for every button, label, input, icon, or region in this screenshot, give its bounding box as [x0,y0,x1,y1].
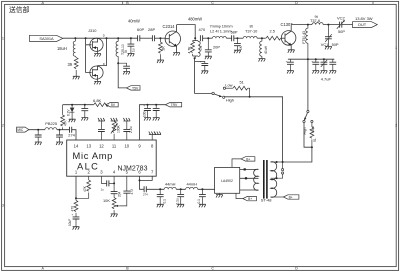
svg-text:4.7K: 4.7K [187,46,191,54]
wire secondary bottom to flag [271,196,284,198]
node junction dot S1 out [249,96,251,98]
svg-text:10K: 10K [103,198,110,203]
ground under Q3 emitter [173,53,180,56]
inductor T37-10 [243,36,257,38]
wire combo bottom down to S1 [195,56,212,93]
svg-text:2.5: 2.5 [270,29,275,34]
node junction dot base Q3 [159,37,161,39]
svg-text:51: 51 [313,138,317,142]
ground under bypass C [321,71,328,74]
node junction dot pin1 [75,197,77,199]
svg-text:10: 10 [124,144,129,149]
wire Q2 drain to main line [98,38,107,66]
resistor 2.5 series [266,36,281,40]
svg-text:FT50-43: FT50-43 [302,31,306,44]
ground under RFC bypass cap [123,72,130,75]
svg-text:NJM2783: NJM2783 [118,165,148,172]
resistor S2 low branch [310,123,317,148]
inductor RFC parallel with 4.7K [198,41,203,57]
svg-text:D: D [295,1,298,5]
svg-text:SA301A: SA301A [39,36,54,41]
svg-text:D: D [103,34,105,38]
capacitor pin10 2.2u [123,121,133,140]
wire LA4902 output pin lower [240,189,259,191]
capacitor 1u pin3 [101,176,115,191]
capacitor 60P series [138,35,140,41]
node MIC input flag [17,127,29,132]
wire S1 High output to transformer feed [225,97,283,162]
svg-text:40uH: 40uH [264,45,268,54]
wire mic bias rail [63,104,94,106]
wire main line segment 4 [203,37,213,39]
ground under 2K [157,60,164,63]
zone tick top right [123,1,373,4]
svg-text:2: 2 [395,124,397,128]
node junction dot mic 1 [37,129,39,131]
svg-text:58P: 58P [231,29,238,34]
node junction dot rail [323,58,325,60]
svg-text:送信部: 送信部 [9,5,30,14]
svg-text:6.8K: 6.8K [93,98,102,103]
ground under Q2 source [94,79,101,84]
capacitor filter shunt 0.1 first [157,189,167,204]
node junction dot [130,37,132,39]
wire main RF line segment 3 [155,37,166,39]
node junction dot pin4 [113,182,115,184]
node junction dot rail feed [307,58,309,60]
svg-text:L2 4t 1.1mm: L2 4t 1.1mm [210,29,232,34]
svg-text:2: 2 [2,124,4,128]
svg-text:ST-48: ST-48 [261,197,272,202]
resistor 4.7K parallel damping [187,38,198,56]
svg-text:1u: 1u [132,48,136,52]
ground under 20P [205,56,212,59]
svg-text:C: C [211,1,214,5]
capacitor electrolytic 10uF [68,213,79,227]
node supply flag T5V buffer [126,86,140,91]
node junction dot feed cross [282,161,284,163]
svg-text:18uH: 18uH [57,46,67,51]
ground under Q4 emitter [288,50,295,53]
wire RFC node down to supply flag [118,63,126,88]
wire mic line [29,130,76,140]
connector jumper upper terminal [282,162,284,171]
transistor Q3 C2314 [165,25,180,53]
svg-text:VC2: VC2 [337,15,346,20]
svg-text:100u: 100u [142,110,146,117]
ground under bypass D [329,71,336,74]
ground under 1u cap [127,53,134,56]
ground inverted pin12 [98,118,105,121]
inductor ferrite bead PB225 [45,128,57,130]
node supply flag TRV right [165,103,181,108]
wire pin6 down [140,176,145,189]
svg-text:B+: B+ [246,157,250,161]
capacitor pin5 473 [120,176,134,206]
ground under 10K pot [111,214,118,217]
capacitor shunt after 58P [234,38,243,50]
inductor 44mH first [164,187,176,189]
capacitor 470 series [200,35,202,41]
capacitor electrolytic 100u [142,103,151,117]
wire segment 6 [234,37,243,39]
svg-text:5t: 5t [124,50,128,53]
transistor Q2 J310 lower [86,66,104,79]
capacitor 28P series [152,35,154,41]
node VFO input flag SA301A [30,35,63,41]
switch S1 contact Low [223,87,225,89]
svg-text:44mH: 44mH [187,181,198,186]
ground under bias cap [81,118,88,121]
svg-text:+: + [286,59,288,63]
node junction dot filter 2 [180,188,182,190]
capacitor supply bypass 2 [153,105,160,118]
inductor L2 air coil [212,36,226,38]
inductor FT50-43 choke vertical [302,25,308,60]
svg-text:473: 473 [130,189,134,195]
node junction dot [106,37,108,39]
svg-text:B+: B+ [289,196,293,200]
svg-text:C: C [211,267,214,271]
wire S2 out down to transformer top tap [271,147,312,162]
svg-text:0.1: 0.1 [163,199,167,204]
inductor RFC T25-10 5t [116,38,128,63]
resistor 6.8K supply [94,103,109,107]
switch S2 feed wire from rail [307,59,309,110]
ground under LA4902 [216,193,223,197]
ground under filter cap 1 [157,204,164,207]
ground under VC1 [325,46,332,49]
node junction dot rail e1 [147,104,149,106]
capacitor bypass B [311,59,319,70]
node junction dot RFC bottom [117,62,119,64]
svg-text:40mW: 40mW [128,18,140,23]
svg-text:+: + [200,60,202,64]
wire audio filter line [146,188,214,190]
wire LA4902 bottom pin to flag [236,193,243,198]
svg-text:4.7uF: 4.7uF [321,77,332,82]
svg-text:0.1: 0.1 [197,199,201,204]
node junction dot rail e2 [155,104,157,106]
connector jumper lower terminal [271,172,284,178]
diode zener bias [66,105,74,120]
svg-text:+: + [72,213,74,217]
wire LA4902 top pin to supply flag [232,159,241,168]
svg-text:PB225: PB225 [45,121,57,126]
capacitor variable VC2 series [337,20,345,29]
inductor RFC 40uH shunt [260,38,268,58]
transistor Q4 C1307 final [281,25,296,50]
ground under mic cap 1 [35,142,42,145]
wire main RF line segment 2 [140,37,153,39]
svg-text:14: 14 [74,144,79,149]
ground under combo cap [201,71,208,74]
node junction dot [74,37,76,39]
svg-text:D: D [295,267,298,271]
wire LA4902 output pin upper [240,168,259,170]
ground under R39 [73,76,80,79]
svg-text:274: 274 [68,132,75,137]
svg-text:OUT: OUT [358,22,367,27]
op-amp U1 NJM2783 mic amp ALC box [67,140,157,176]
transformer T1 core bar right [266,160,268,199]
ground under supply bypass 2 [153,118,160,121]
transistor Q1 J310 upper [86,38,104,51]
capacitor bypass A electrolytic [286,59,294,70]
svg-text:2K: 2K [161,46,165,51]
node junction dot [236,37,238,39]
svg-text:B+: B+ [248,197,252,201]
ground under 40uH [259,59,266,62]
wire segment 8 into Q4 base [281,37,285,39]
svg-text:Low: Low [225,82,232,87]
svg-text:0.1u: 0.1u [175,198,179,204]
capacitor 274 mic series [68,127,75,138]
resistor mic bias vertical [61,105,68,130]
node flag B+ secondary [283,195,299,200]
ground under 10uF [73,227,80,230]
svg-text:+: + [143,103,145,107]
capacitor bypass at RFC node [118,63,130,71]
capacitor trimmer VC1 [325,25,332,47]
resistor 39 [68,56,79,76]
capacitor mic bypass 1 [35,130,42,142]
ground inverted pin8 [149,132,161,140]
svg-text:13.8V 3W: 13.8V 3W [355,16,373,21]
node junction dot rail cap [84,104,86,106]
svg-text:12: 12 [99,144,104,149]
node junction dot combo bottom [194,57,196,59]
ground under filter cap 3 [199,204,206,207]
switch S1 lever [214,94,222,97]
svg-text:1: 1 [395,46,397,50]
svg-text:47K: 47K [63,119,67,126]
wire gate bus Q1 Q2 [85,38,87,72]
capacitor 20P shunt [205,38,220,56]
node junction dot transformer top tap [276,161,278,163]
svg-text:T37-10: T37-10 [245,29,258,34]
node junction dot rail zener [71,104,73,106]
node supply flag 5V [106,103,118,108]
node junction dot rail [315,58,317,60]
svg-text:T37-6: T37-6 [310,18,320,23]
op-amp U2 LA4902 audio power amp [215,167,240,193]
transformer T1 primary winding [254,169,259,190]
ground inverted pin11 [111,118,118,121]
node junction dot filter 1 [159,188,161,190]
svg-text:13: 13 [86,144,91,149]
node junction dot [85,37,87,39]
capacitor bypass 1u at drain node [127,38,135,53]
transformer T1 secondary winding [271,162,277,198]
wire pin7 link to pin6 [140,176,153,180]
ground under Q1 source [94,51,101,56]
node junction dot mic 2 [59,129,61,131]
svg-text:60P: 60P [137,27,144,32]
wire supply bypass rail [288,58,334,60]
node junction dot [207,37,209,39]
node junction dot S2 out [311,146,313,148]
resistor 51 low power [226,86,250,97]
svg-text:1: 1 [2,37,4,41]
svg-text:28P: 28P [148,27,155,32]
capacitor electrolytic at combo node [195,60,209,71]
svg-text:44mH: 44mH [165,181,176,186]
node junction dot collector node [194,37,196,39]
ground under 100u [144,118,151,121]
svg-text:C2314: C2314 [163,24,176,29]
svg-text:2.2u: 2.2u [129,126,133,133]
svg-text:470: 470 [199,27,206,32]
switch S2 contact Low [311,120,313,122]
capacitor bypass C trimmer [321,59,328,70]
node output flag OUT [353,22,378,28]
transformer T1 core bar left [263,160,265,199]
ground under shunt cap [234,50,241,53]
svg-text:204: 204 [117,191,121,197]
capacitor filter shunt 0.1 third [197,189,206,204]
ground under mic cap 2 [56,142,63,145]
svg-text:J310: J310 [88,28,97,33]
resistor 2K base bias [159,38,166,60]
svg-text:Mic Amp: Mic Amp [73,151,114,161]
ground under filter cap 2 [177,204,184,207]
capacitor pin4 series 204 [111,176,122,197]
capacitor 274 series audio out [143,186,148,196]
capacitor bias bypass [81,105,88,118]
ground under zener [69,119,76,122]
svg-text:274: 274 [143,192,148,196]
svg-text:1u: 1u [101,188,105,192]
capacitor bypass D [329,59,336,70]
inductor 18uH [57,38,75,56]
wire S2 High branch [304,123,312,148]
ground inverted pin10 [123,118,130,121]
ground under bypass A [287,71,294,74]
svg-text:39: 39 [68,62,73,67]
node square terminal upper [244,168,246,170]
svg-text:TRV: TRV [171,103,178,107]
wire pin9 up to supply rail [140,105,166,140]
capacitor pin12 to ground above [98,121,105,140]
node supply flag B+ bottom [243,196,257,201]
switch S2 contact High [303,120,305,122]
wire segment 5 [226,37,231,39]
node supply flag B+ top [241,157,255,162]
node junction dot filter 3 [201,188,203,190]
switch S1 common contact [212,92,214,94]
svg-text:5V: 5V [111,103,116,107]
svg-text:6.2V: 6.2V [66,109,70,116]
svg-text:0.6: 0.6 [199,46,203,51]
svg-text:100K: 100K [117,124,121,133]
inductor T37-6 output [312,23,323,25]
node square terminal middle [245,177,247,179]
switch S2 lever [304,113,307,121]
svg-text:20P: 20P [213,45,220,50]
svg-text:10uF: 10uF [68,219,72,226]
wire output line top [291,24,352,26]
svg-text:47K: 47K [83,185,87,192]
node junction dot VC1 [327,24,329,26]
svg-text:LA4902: LA4902 [221,179,233,183]
node junction dot transformer mid tap [276,177,278,179]
svg-text:T5V: T5V [132,86,139,90]
svg-text:51: 51 [240,80,244,85]
switch S2 common contact [307,110,309,112]
svg-text:480mW: 480mW [188,17,202,22]
svg-text:50P: 50P [332,42,339,47]
wire LA4902 output pin middle [240,177,259,179]
svg-text:MIC: MIC [17,128,24,132]
svg-text:3: 3 [2,204,4,208]
capacitor mic bypass 2 [56,130,63,142]
wire segment 7 [257,37,266,39]
wire pin1 down [75,176,77,198]
wire main RF line segment 1 [63,37,138,39]
svg-text:470: 470 [70,206,74,212]
ground under bypass B [312,71,319,74]
node junction dot [261,37,263,39]
switch S1 contact High [223,96,225,98]
inductor 44mH second [186,187,198,189]
node junction dot pin6 [139,179,141,181]
wire Q3 collector to driver node [177,25,196,39]
capacitor filter shunt 0.1u second [175,189,184,204]
node junction dot [117,37,119,39]
svg-text:11: 11 [112,144,117,149]
potentiometer pin11 100K [111,121,121,140]
capacitor 58P series [232,35,234,41]
svg-text:50P: 50P [338,29,345,34]
svg-text:High: High [226,97,234,102]
svg-text:+: + [311,59,313,63]
potentiometer 10K [103,198,120,214]
node junction dot choke top [307,24,309,26]
resistor 470 below pin1 [70,198,78,217]
resistor pin2 47K [76,176,91,198]
